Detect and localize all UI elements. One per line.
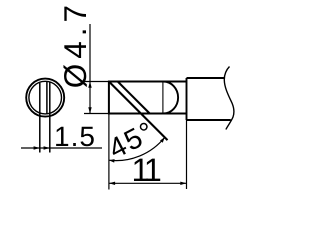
dim 11 line [109,182,187,184]
dim 45 arc right arrow [160,137,165,142]
bevel diagonal A extended to 45 dim [109,82,168,141]
svg-text:1.5: 1.5 [54,121,96,152]
shaft bottom edge [108,113,187,115]
dim diameter 4.7 down arrow [88,107,91,113]
blade left face line (chord + extension down) [39,83,41,153]
barrel bottom edge [187,119,231,121]
barrel left edge [186,78,188,120]
dim diameter 4.7 vertical line [89,24,91,114]
barrel top edge [187,77,225,79]
bevel diagonal B [118,82,150,114]
dim 1.5 arrow at right face [44,146,50,149]
dim 45 arc [109,137,165,160]
dim 45 arc left arrow [109,159,115,163]
transition vertical line [162,82,164,114]
end view inner circle [29,81,62,114]
dim 11 right extension line [186,120,188,189]
shaft left edge (knife edge) [108,81,110,115]
end view outer circle [26,79,64,117]
blade edge middle chord [46,82,48,114]
blade right face line (chord + extension down) [49,83,51,153]
svg-text:Ø4.7: Ø4.7 [57,0,93,88]
dim 1.5 line [21,147,102,149]
shaft bottom edge left extension [84,113,109,115]
transition bulge arc [163,82,178,114]
shaft top edge left extension [84,81,109,83]
svg-text:11: 11 [132,152,161,188]
break S-curve [224,67,234,130]
dim diameter 4.7 up arrow [88,82,91,88]
dim 11 left arrow [109,182,115,185]
dim 1.5 arrow at left face [34,146,40,149]
dim 11 right arrow [180,182,186,185]
shaft top edge [108,81,187,83]
dim 45 vertical extension line [108,114,110,190]
